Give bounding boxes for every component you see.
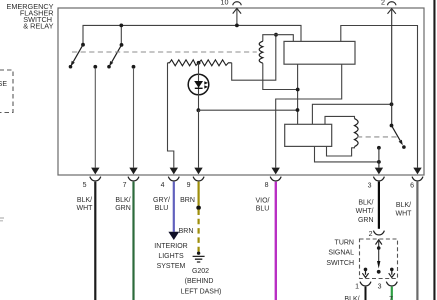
wire: resistor right end down and over to coil bus <box>232 35 276 80</box>
svg-text:(BEHIND: (BEHIND <box>185 278 214 285</box>
wire: LED junction down to pin 9 <box>198 110 200 167</box>
svg-text:BLK/: BLK/ <box>358 199 373 206</box>
node: junction on coil top line <box>274 33 278 37</box>
svg-text:GRY/: GRY/ <box>153 197 170 204</box>
wire from TSS pin 1 <box>365 287 367 300</box>
node: resistor center tap <box>197 61 201 65</box>
relay coil L1 <box>259 41 263 63</box>
label BLK/WHT/GRN <box>356 199 374 224</box>
female connector symbols below box <box>90 177 423 181</box>
connector 2 at turn signal switch <box>369 231 385 238</box>
wire: LED junction to relay 2 <box>198 109 297 111</box>
label BLK/WHT (pin 6) <box>396 202 413 217</box>
LED indicator D1 <box>188 63 209 110</box>
label BLK/GRN <box>115 197 131 212</box>
node: junction on pin 2 wire <box>390 102 394 106</box>
wire: bus from switch pivots to relay contact box <box>83 25 301 44</box>
svg-text:SYSTEM: SYSTEM <box>157 263 186 270</box>
svg-text:3: 3 <box>378 284 382 291</box>
svg-text:G202: G202 <box>192 268 209 275</box>
svg-text:7: 7 <box>389 296 393 300</box>
connector 1 below turn signal switch <box>355 282 371 291</box>
svg-text:& RELAY: & RELAY <box>23 22 53 31</box>
resistor R1 <box>168 60 232 66</box>
node: junction on pin 3 wire <box>377 160 381 164</box>
wire: coil L1 bottom to junction <box>263 63 298 89</box>
turn signal switch dashed box <box>360 239 398 279</box>
fuse reference dashed box (cut off at left edge) <box>0 70 13 113</box>
wire BLK/WHT/GRN pin 3 <box>378 182 380 229</box>
wire VIO/BLU pin 8 <box>275 182 277 300</box>
svg-text:10: 10 <box>221 0 229 6</box>
page edge mark left <box>0 218 4 221</box>
relay 2 contact box U2 <box>285 124 332 146</box>
node: junction at pin 10 stub <box>235 24 239 28</box>
svg-text:BLK/: BLK/ <box>115 197 130 204</box>
svg-text:VIO/: VIO/ <box>255 197 269 204</box>
svg-text:LEFT DASH): LEFT DASH) <box>181 288 222 295</box>
switch S2 blade <box>390 124 406 149</box>
wire: switch B pivot stub <box>120 25 122 45</box>
label turn signal switch <box>326 239 354 267</box>
connector 3 below turn signal switch <box>378 282 398 291</box>
ground G202 <box>181 252 222 296</box>
emergency flasher switch & relay component box <box>58 8 424 175</box>
switch S1b blade <box>107 43 123 68</box>
svg-text:BLK/: BLK/ <box>344 296 359 300</box>
wire BRN pin 9 <box>196 182 201 252</box>
wire: U1 bottom right stub over to pin 8 <box>276 64 342 167</box>
svg-text:3: 3 <box>368 183 372 190</box>
svg-text:2: 2 <box>369 231 373 238</box>
pin arrows at box bottom <box>91 168 422 175</box>
wire: coil L2 bottom jog to relay 2 bottom <box>327 146 355 156</box>
wire: relay 2 top to coil L2 <box>325 116 355 124</box>
svg-text:5: 5 <box>83 182 87 189</box>
wire BLK/WHT pin 6 <box>416 182 418 300</box>
label interior lights system <box>154 243 187 270</box>
svg-text:1: 1 <box>355 284 359 291</box>
relay coil L2 <box>355 119 359 147</box>
svg-text:GRN: GRN <box>115 205 131 212</box>
svg-text:TURN: TURN <box>335 239 354 246</box>
wire: relay 2 top stub to pin 2 line <box>312 104 391 124</box>
pin numbers <box>83 182 415 189</box>
svg-text:BLK/: BLK/ <box>77 197 92 204</box>
svg-text:SWITCH: SWITCH <box>326 260 354 267</box>
wire: relay 2 bottom to pin 3 wire <box>315 146 379 162</box>
page edge right <box>433 0 435 300</box>
wire BLK/GRN pin 7 <box>132 182 134 300</box>
relay contact box U1 <box>284 41 355 64</box>
label BLK/WHT <box>77 197 94 212</box>
wire: coil L1 top link to contact box <box>263 35 294 42</box>
svg-text:WHT: WHT <box>396 210 413 217</box>
wire: U1 top to pin 6 <box>341 26 418 168</box>
svg-text:SIGNAL: SIGNAL <box>328 250 354 257</box>
svg-text:4: 4 <box>161 182 165 189</box>
svg-text:GRN: GRN <box>358 217 374 224</box>
wire from TSS pin 3 <box>391 287 393 300</box>
svg-text:WHT: WHT <box>77 205 94 212</box>
connector pin 2 (to top of page) <box>381 0 396 126</box>
wire: U1 bottom to relay 2 top <box>297 64 299 124</box>
turn signal switch contact 1 <box>362 268 368 278</box>
node: junction with LED line <box>296 108 300 112</box>
dashed mechanical linkage (right) <box>357 136 398 138</box>
node: junction at switch B stub <box>119 24 123 28</box>
svg-text:BLU: BLU <box>256 206 270 213</box>
node: junction below LED <box>197 108 201 112</box>
svg-text:LIGHTS: LIGHTS <box>158 253 184 260</box>
svg-text:BLK/: BLK/ <box>396 202 411 209</box>
svg-text:8: 8 <box>265 182 269 189</box>
svg-text:7: 7 <box>123 182 127 189</box>
label VIO/BLU <box>255 197 269 212</box>
svg-text:6: 6 <box>410 183 414 190</box>
svg-text:WHT/: WHT/ <box>356 208 374 215</box>
svg-text:BRN: BRN <box>179 228 194 235</box>
contact / wire to pin 7 <box>132 65 136 168</box>
contact / wire to pin 5 <box>93 65 97 168</box>
svg-text:INTERIOR: INTERIOR <box>154 243 187 250</box>
turn signal switch pole <box>376 240 382 274</box>
svg-text:BLU: BLU <box>155 205 169 212</box>
wire: pin 4 jog from resistor left end <box>168 63 174 168</box>
arrow to interior lights system <box>168 232 179 240</box>
svg-text:9: 9 <box>187 182 191 189</box>
svg-text:SE: SE <box>0 81 7 88</box>
connector pin 10 (to top of page) <box>221 0 242 25</box>
turn signal switch contact 3 <box>389 268 395 278</box>
wire: switch S2 contact to pin 3 <box>377 146 381 168</box>
dashed mechanical linkage (left) <box>72 51 257 53</box>
wire GRY/BLU pin 4 <box>173 182 175 232</box>
wire BLK/WHT pin 5 <box>94 182 96 300</box>
emergency flasher switch & relay label <box>6 2 53 31</box>
switch S1a blade <box>69 43 85 69</box>
svg-text:2: 2 <box>381 0 385 6</box>
label GRY/BLU <box>153 197 170 212</box>
svg-text:BRN: BRN <box>180 197 195 204</box>
node: junction with coil L1 bottom <box>296 88 300 92</box>
